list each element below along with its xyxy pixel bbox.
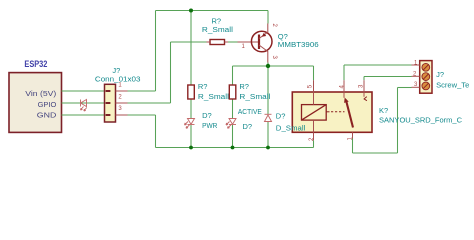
svg-text:GND: GND [37, 110, 57, 119]
relay coil bottom lead [313, 120, 315, 132]
relay coil diagonal [302, 105, 327, 121]
wire ESP32 Vin to connector [62, 90, 105, 92]
relay pin 4 stub [343, 80, 345, 97]
wire branch R2 top [232, 66, 234, 85]
svg-text:R_Small: R_Small [202, 25, 233, 34]
LED D2 ACTIVE [226, 119, 236, 129]
svg-text:R_Small: R_Small [239, 92, 270, 101]
wire collector horizontal [233, 65, 314, 67]
transistor Q1 base bar [258, 35, 260, 50]
svg-text:D_Small: D_Small [276, 123, 306, 132]
resistor R3 right pin [225, 41, 229, 43]
connector J1 pin 3 stub [116, 114, 128, 116]
diode D3 flyback [265, 114, 272, 121]
svg-text:Screw_Te: Screw_Te [436, 81, 469, 90]
transistor Q1 emitter arrow (PNP) [262, 33, 266, 37]
wire pin4 to screw pin1 [344, 64, 412, 66]
resistor R3 left pin [207, 41, 211, 43]
svg-text:ACTIVE: ACTIVE [238, 107, 262, 116]
wire pin2 horizontal [128, 102, 171, 104]
svg-text:R_Small: R_Small [198, 92, 229, 101]
svg-text:GPIO: GPIO [38, 100, 57, 109]
transistor Q1 base pin [238, 41, 259, 43]
wire LED1 to bus [190, 125, 192, 148]
transistor Q1 circle [251, 31, 272, 52]
wire relay pin3 riser [363, 77, 365, 81]
svg-text:D?: D? [243, 122, 253, 131]
svg-text:R?: R? [239, 82, 249, 91]
relay pin 1 stub [352, 132, 354, 138]
relay switch blade [346, 100, 353, 128]
svg-text:D?: D? [276, 112, 286, 121]
screw terminal pin 3 stub [412, 86, 420, 88]
relay pin 2 stub [313, 132, 315, 140]
junction collector node [266, 64, 270, 68]
connector J1 pin 1 stub [116, 90, 128, 92]
wire right riser to screw pin3 [397, 88, 399, 154]
wire ground bus [156, 147, 314, 149]
screw terminal pin 1 stub [412, 64, 420, 66]
sheet ESP32 box [9, 73, 62, 133]
svg-text:R?: R? [212, 16, 222, 25]
wire ESP32 GPIO to connector [62, 102, 105, 104]
connector J1 pad 2 [106, 102, 111, 104]
wire R2 to LED2 [232, 99, 234, 119]
connector J1 pad 3 [106, 114, 111, 116]
wire branch R1 from top [190, 11, 192, 86]
wire pin3 down [155, 115, 157, 148]
relay NC contact chevron [364, 97, 367, 101]
screw terminal J2 body [420, 61, 432, 94]
relay pin 3 stub [363, 80, 365, 97]
relay blade arrowhead [344, 98, 349, 103]
junction bus at D3 [266, 146, 270, 150]
wire collector to junction [267, 63, 269, 67]
svg-text:R?: R? [198, 82, 208, 91]
resistor R3 body [210, 40, 225, 45]
junction top at R1 branch [189, 9, 193, 13]
transistor Q1 emitter [259, 24, 268, 39]
wire relay pin1 drop [352, 139, 354, 154]
wire D3 to bus [267, 122, 269, 148]
connector J1 body [105, 84, 116, 122]
screw 2 [422, 73, 430, 81]
relay coil top lead [313, 92, 315, 105]
LED D5 small inline on GPIO [81, 100, 87, 112]
wire R1 to LED1 [190, 99, 192, 119]
wire relay pin4 riser [343, 65, 345, 80]
wire top VCC horizontal [156, 10, 269, 12]
connector J1 pin 2 stub [116, 102, 128, 104]
relay coil box [302, 105, 327, 121]
wire junction to D3 [267, 66, 269, 114]
svg-text:Conn_01x03: Conn_01x03 [95, 75, 141, 84]
wire resistor to base [228, 41, 240, 43]
screw 1 [422, 63, 430, 71]
connector J1 pad 1 [106, 90, 111, 92]
svg-text:D?: D? [202, 111, 212, 120]
wire LED2 to bus [232, 125, 234, 148]
wire pin3 horizontal [128, 114, 156, 116]
wire emitter drop [267, 11, 269, 24]
screw 3 [422, 82, 430, 90]
resistor R2 body [229, 85, 236, 99]
screw terminal pin 2 stub [412, 75, 420, 77]
wire to screw pin3 [398, 87, 412, 89]
transistor Q1 collector [259, 45, 268, 63]
relay dashed actuator line [326, 111, 329, 113]
junction bus at LED2 [231, 146, 235, 150]
svg-text:PWR: PWR [202, 121, 218, 130]
LED D1 PWR [185, 119, 195, 129]
svg-text:ESP32: ESP32 [24, 59, 47, 69]
relay pin 5 stub [313, 80, 315, 92]
svg-text:K?: K? [379, 106, 388, 115]
svg-text:SANYOU_SRD_Form_C: SANYOU_SRD_Form_C [379, 115, 463, 124]
junction bus at LED1 [189, 146, 193, 150]
wire pin2 riser [170, 42, 172, 103]
wire to base resistor [171, 41, 207, 43]
svg-text:Vin (5V): Vin (5V) [25, 89, 56, 98]
wire ESP32 GND to connector [62, 114, 105, 116]
wire pin3 to screw pin2 [364, 76, 412, 78]
svg-text:MMBT3906: MMBT3906 [278, 40, 319, 49]
resistor R1 body [188, 85, 195, 99]
wire left rail down to pin1 [155, 11, 157, 92]
wire bus to relay pin2 [313, 140, 315, 147]
wire bottom right horizontal [353, 152, 398, 154]
svg-text:J?: J? [436, 70, 444, 79]
relay K1 body [292, 92, 372, 132]
wire to relay pin5 [313, 66, 315, 80]
wire pin1 horizontal [128, 90, 156, 92]
